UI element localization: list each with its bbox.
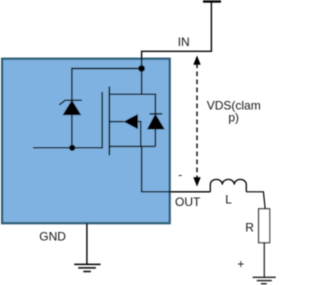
ground (load return) xyxy=(253,277,276,284)
svg-text:R: R xyxy=(245,220,254,234)
body diode D2 xyxy=(148,114,164,146)
svg-text:p): p) xyxy=(228,110,239,124)
wire: GND pin xyxy=(86,223,88,264)
svg-text:GND: GND xyxy=(39,230,66,244)
device block (integrated switch) xyxy=(2,59,170,224)
svg-text:+: + xyxy=(237,257,244,271)
wire: zener anode to gate wire xyxy=(71,115,73,148)
zener diode D1 (clamp) xyxy=(59,100,82,114)
transistor Q1 gate electrode xyxy=(101,92,103,149)
inductor L1 xyxy=(210,179,246,191)
resistor R1 xyxy=(259,209,270,243)
svg-text:OUT: OUT xyxy=(175,195,201,209)
wire IN: bar to box xyxy=(142,3,212,69)
wire: inductor to resistor xyxy=(246,192,265,209)
transistor Q1 body arrow xyxy=(109,114,141,146)
wire OUT: source to inductor xyxy=(142,146,211,191)
label VDS(clamp) xyxy=(207,98,261,124)
wire: drain stub xyxy=(109,94,155,113)
node: drain junction dot xyxy=(138,65,145,72)
dashed arrow VDS(clamp) xyxy=(193,55,200,186)
ground (device GND) xyxy=(74,264,100,271)
wire: gate drive stub xyxy=(33,147,102,149)
wire: dot to zener cathode xyxy=(72,69,142,101)
wire: resistor to ground xyxy=(263,243,265,278)
svg-text:-: - xyxy=(178,168,182,182)
node: gate junction dot xyxy=(69,145,75,151)
supply bar (VBB rail) xyxy=(203,0,221,2)
wire: source line xyxy=(109,145,155,147)
wire: drain vertical xyxy=(141,69,143,95)
transistor Q1 channel line xyxy=(108,86,110,155)
svg-text:IN: IN xyxy=(178,35,190,49)
svg-text:L: L xyxy=(225,192,232,206)
